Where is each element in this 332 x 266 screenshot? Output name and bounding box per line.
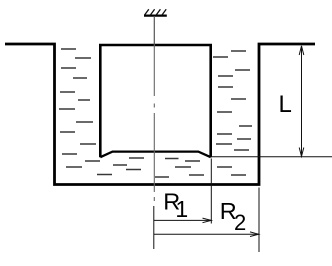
svg-text:1: 1	[175, 196, 188, 222]
svg-text:2: 2	[234, 210, 246, 235]
svg-text:L: L	[279, 91, 292, 118]
